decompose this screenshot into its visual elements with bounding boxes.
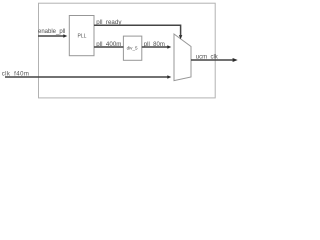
arrowhead pll_80m into mux [167, 45, 171, 48]
mux MX1 [174, 34, 191, 81]
svg-text:enable_pll: enable_pll [38, 29, 65, 35]
svg-text:pll_400m: pll_400m [96, 41, 121, 48]
svg-text:pll_80m: pll_80m [144, 42, 165, 48]
svg-text:div_5: div_5 [127, 45, 138, 50]
arrowhead enable_pll into PLL [63, 34, 67, 37]
divider block div_5 [123, 36, 141, 60]
PLL block U_PLL [69, 16, 94, 56]
arrowhead select into mux [179, 35, 182, 39]
svg-text:PLL: PLL [78, 34, 87, 40]
arrowhead ucm_clk output [233, 58, 238, 62]
wire ucm_clk output [191, 59, 233, 61]
svg-text:pll_ready: pll_ready [96, 19, 122, 26]
wire pll_400m [94, 46, 123, 48]
wire enable_pll [38, 35, 64, 37]
arrowhead clk_f40m into mux [167, 75, 171, 78]
svg-text:clk_f40m: clk_f40m [2, 71, 30, 77]
module boundary box [39, 3, 216, 98]
svg-text:ucm_clk: ucm_clk [196, 55, 219, 61]
wire pll_ready to mux select [94, 25, 181, 35]
wire pll_80m [142, 46, 168, 48]
wire clk_f40m [5, 76, 168, 78]
